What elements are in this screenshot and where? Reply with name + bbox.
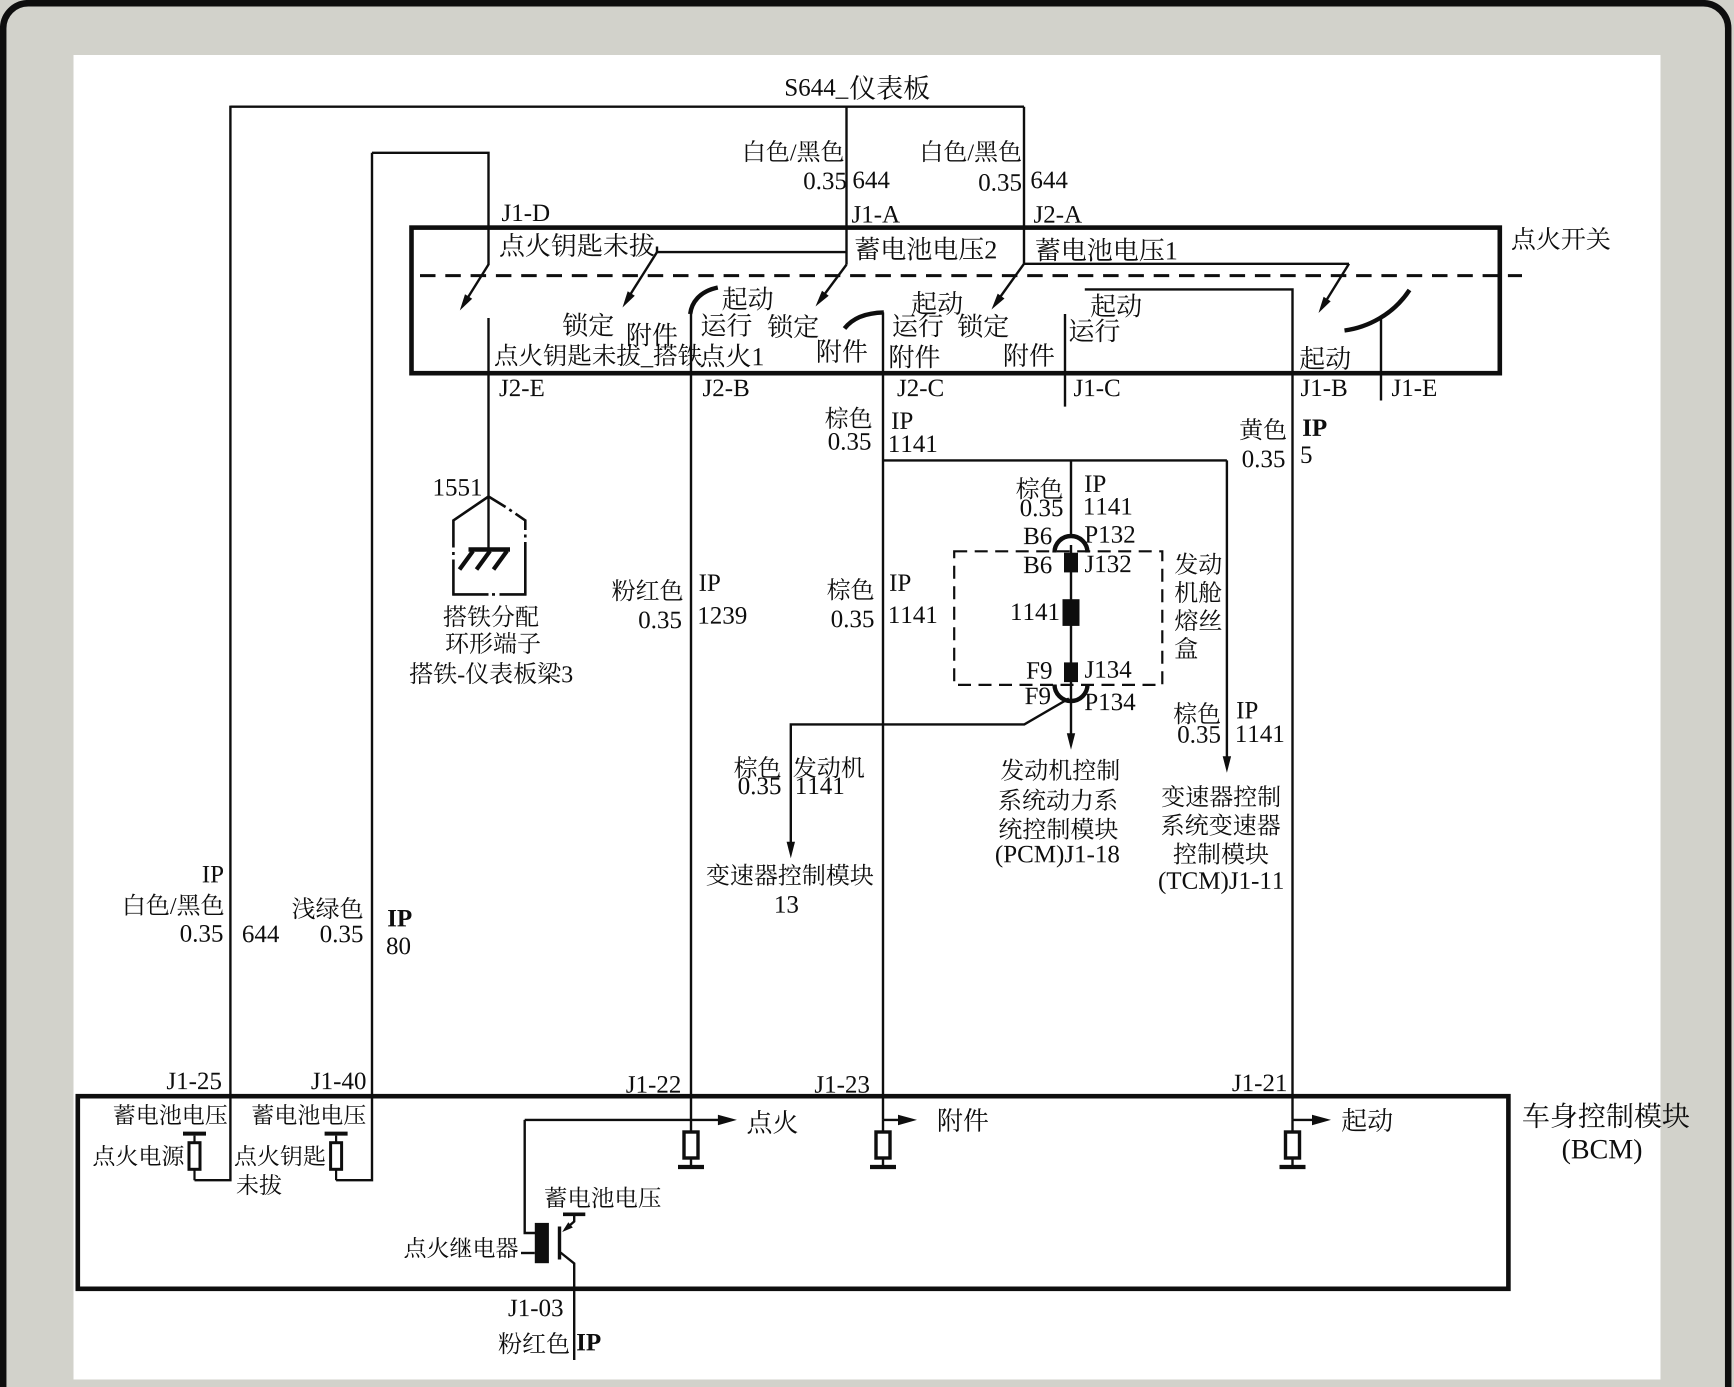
wire gauge 0.35 engine branch (739, 777, 781, 794)
arrow shaft key-in J1-D (464, 265, 489, 305)
ignition switch box outline (412, 228, 1500, 374)
wire color label white/black for J1-A (746, 140, 844, 162)
harness IP at J1-03 (577, 1334, 600, 1350)
signal 蓄电池电压 at relay (545, 1187, 661, 1209)
wire color 粉红色 at J2-B (612, 579, 682, 601)
body control module (BCM) box outline (78, 1096, 1509, 1289)
destination PCM line1 (1001, 758, 1119, 780)
pin J1-B (1301, 380, 1346, 397)
position label 锁定 (1) (563, 312, 613, 336)
destination PCM line3 (999, 818, 1117, 840)
arrow shaft battery1 (996, 264, 1025, 304)
pin J1-40 (311, 1072, 365, 1089)
wire gauge 0.35 for J2-A (979, 174, 1021, 191)
switch contact arc at J1-E (1345, 290, 1410, 331)
position label 附件 (1) (628, 323, 677, 347)
switch contact arc at J2-B (690, 288, 718, 315)
wire gauge 0.35 at J2-C (829, 433, 871, 450)
pin J2-A (1034, 206, 1082, 223)
connector J132 (1085, 556, 1130, 573)
wire fuse feed run (883, 459, 1227, 461)
destination TCM line2 (1162, 813, 1280, 835)
module name (BCM) (1563, 1139, 1641, 1164)
fuse circuit 1141 (1012, 604, 1058, 621)
ground electrode prongs (460, 551, 508, 570)
arrowhead accessory output (898, 1115, 917, 1126)
wire gauge 0.35 TCM drop (1178, 726, 1220, 743)
arrowhead battery2 (816, 291, 829, 307)
wire start arrow line (1293, 1119, 1325, 1121)
wire color 白色/黑色 left (126, 894, 224, 916)
harness IP at J2-B (700, 575, 720, 591)
wire color label white/black for J2-A (923, 140, 1021, 162)
wire J1-B run and drop to BCM J1-21 (1085, 289, 1293, 1120)
arrowhead start output (1312, 1115, 1331, 1126)
pin J1-E (1392, 380, 1436, 397)
wire relay feed in BCM (525, 1120, 536, 1233)
wire color 浅绿色 (292, 897, 362, 919)
circuit number 644 at J1-A (853, 172, 889, 189)
terminal B6 upper (1024, 528, 1052, 545)
input load resistor at J1-22 ignition (690, 1120, 692, 1165)
wire fuse column (1070, 545, 1072, 742)
wire J2-B to BCM J1-22 (690, 312, 692, 1120)
wire gauge 0.35 for J1-A (804, 172, 846, 189)
ground terminal id 1551 (435, 479, 481, 496)
wire color 棕色 mid J2-C (827, 578, 873, 600)
signal 未拔 (237, 1174, 282, 1195)
harness IP (bold) 80 (388, 910, 411, 926)
ignition switch name 点火开关 (1512, 227, 1610, 250)
wire J1-25 riser (left vertical to BCM) (195, 106, 231, 1181)
position label 运行 (J2-B) (702, 313, 752, 337)
destination PCM line2 (999, 789, 1116, 811)
wire gauge 0.35 at J1-B (1243, 450, 1285, 467)
wire battery voltage 1 run (1024, 263, 1349, 265)
arrow shaft battery2 (820, 265, 847, 301)
connector J134 (1085, 661, 1131, 678)
ignition switch rotary dashed line (420, 274, 1522, 277)
wire gauge 0.35 fuse drop (1021, 499, 1063, 516)
harness IP (bold) at J1-B (1303, 420, 1326, 436)
pin J2-E (500, 380, 544, 397)
arrowhead battery1 (992, 294, 1005, 310)
termination resistor at J1-40 (battery voltage / key-in) (325, 1132, 348, 1136)
circuit 1141 mid J2-C (890, 607, 936, 624)
wire color 棕色 fuse drop (1016, 477, 1062, 499)
position label 运行 (J1-C) (1070, 318, 1120, 342)
fuse box name line2 机舱 (1175, 581, 1221, 603)
wire accessory arrow line (883, 1119, 910, 1121)
signal 点火钥匙 (235, 1145, 325, 1166)
terminal F9 lower (1025, 688, 1050, 705)
connector P134 (1085, 694, 1135, 711)
fuse terminal contact B6 (1064, 553, 1078, 573)
wire J1-C stub (1064, 314, 1066, 407)
arrowhead to TCM13 (787, 842, 795, 859)
wire color 粉红色 at J1-03 (499, 1332, 569, 1354)
circuit 80 (387, 937, 410, 954)
position label 运行 (J2-C) (893, 313, 943, 337)
wire gauge 0.35 ltgreen (321, 925, 363, 942)
pin J1-22 (626, 1076, 680, 1093)
ground electrode bar (469, 547, 511, 552)
arrowhead to PCM (1067, 733, 1075, 750)
position label 起动 (J2-C) (912, 291, 962, 315)
wire J1-A drop from bus (845, 107, 847, 265)
signal 蓄电池电压 at J1-40 (252, 1104, 365, 1125)
wire color 棕色 TCM drop (1174, 702, 1220, 724)
connector arc J134/P134 (1055, 685, 1088, 702)
harness IP mid J2-C (890, 575, 910, 591)
destination TCM line1 (1162, 785, 1280, 807)
net 点火钥匙未拔 (key-in) (500, 233, 654, 257)
ground text 搭铁-仪表板梁3 (410, 662, 572, 684)
pin J1-25 (167, 1073, 221, 1090)
wire J2-C to BCM J1-23 (882, 312, 884, 1120)
wire engine branch (791, 699, 1069, 852)
destination TCM line3 (1174, 842, 1269, 864)
pin J1-A (852, 206, 900, 223)
fuse box name line1 发动 (1175, 552, 1221, 574)
wire S644 splice bus (230, 105, 1024, 107)
circuit number 644 at J2-A (1031, 172, 1067, 189)
arrowhead ignition output (718, 1115, 737, 1126)
wire TCM drop (1226, 460, 1228, 765)
wire color 黄色 at J1-B (1240, 418, 1286, 440)
circuit 1141 fuse drop (1085, 498, 1131, 515)
harness 发动机 (794, 756, 865, 778)
pin J1-21 (1232, 1075, 1286, 1092)
input load resistor at J1-23 accessory (882, 1120, 884, 1165)
wire color 棕色 engine branch (734, 756, 780, 778)
arrow shaft start J1-B (1323, 264, 1350, 307)
wire gauge 0.35 mid J2-C (832, 610, 874, 627)
pin J1-03 (509, 1299, 563, 1316)
arrowhead start J1-B (1319, 297, 1331, 313)
termination resistor at J1-25 (battery voltage / ignition power) (183, 1132, 206, 1136)
circuit 1239 at J2-B (700, 607, 747, 624)
ground symbol enclosure (pentagon with dash-dot breaks) (452, 496, 526, 596)
position label 起动 (J2-B) (722, 287, 772, 311)
circuit 1141 at J2-C (890, 436, 936, 453)
harness IP at J2-C (892, 413, 912, 429)
transistor collector lead (565, 1214, 574, 1229)
destination pin 13 (776, 896, 798, 913)
wire gauge 0.35 at J2-B (639, 611, 681, 628)
position label 起动 (J1-C) (1091, 294, 1141, 318)
net label S644 instrument panel (CJK part) (850, 75, 929, 100)
arrow label 附件 (939, 1108, 988, 1132)
switch contact arc at J2-C (845, 312, 884, 328)
connector arc P132/J132 (1055, 536, 1088, 553)
arrowhead to TCM (1223, 756, 1231, 773)
contact label 点火1 (701, 343, 763, 367)
contact label 点火钥匙未拔_搭铁 (495, 344, 702, 368)
destination TCM line4 (1159, 871, 1283, 894)
input load resistor at J1-21 start (1291, 1120, 1293, 1165)
wire gauge 0.35 left (181, 925, 223, 942)
arrowhead key-in to lock (623, 291, 635, 307)
wire ignition arrow line (525, 1119, 729, 1121)
transistor base bar (558, 1227, 561, 1260)
position label 锁定 (2) (768, 314, 818, 338)
terminal B6 lower (1024, 557, 1052, 574)
ground text 搭铁分配 (444, 605, 539, 627)
destination 变速器控制模块 (707, 863, 874, 885)
net 蓄电池电压2 (855, 237, 995, 261)
destination PCM line4 (996, 845, 1119, 868)
battery voltage T-bar at transistor (563, 1213, 585, 1217)
fuse box name line3 熔丝 (1175, 609, 1222, 631)
net label S644 instrument panel (latin part) (786, 79, 848, 99)
pin J2-B (703, 380, 748, 397)
relay name 点火继电器 (404, 1237, 517, 1258)
signal 蓄电池电压 at J1-25 (114, 1104, 227, 1125)
harness IP fuse drop (1085, 476, 1105, 492)
arrow label 起动 (1342, 1108, 1392, 1132)
net 蓄电池电压1 (1036, 238, 1176, 262)
terminal F9 upper (1027, 662, 1052, 679)
arrow shaft key-in to lock (627, 252, 658, 300)
position label 锁定 (3) (958, 313, 1008, 337)
transistor emitter lead (561, 1253, 575, 1361)
circuit 5 at J1-B (1301, 447, 1311, 464)
position label 起动 (J1-B) (1300, 346, 1350, 370)
fuse terminal contact F9 (1064, 662, 1078, 682)
position label 附件 (2) (818, 339, 867, 363)
fuse element 1141 (1063, 599, 1080, 626)
wire J1-40 riser (336, 153, 372, 1180)
ground text 环形端子 (446, 632, 540, 654)
pin J1-D (502, 205, 549, 222)
circuit 1141 engine branch (797, 778, 843, 795)
wire key-in net step (657, 247, 847, 253)
wire J1-40 to J1-D jog (372, 153, 489, 265)
module name 车身控制模块 (1523, 1102, 1689, 1128)
signal 点火电源 (93, 1145, 183, 1166)
harness IP left (203, 866, 223, 882)
fuse box name line4 盒 (1175, 637, 1197, 658)
arrow label 点火 (748, 1110, 798, 1134)
ignition relay coil bar (535, 1223, 549, 1263)
wire color 棕色 at J2-C (825, 407, 871, 429)
transistor arrowhead (562, 1222, 573, 1232)
position label 附件 (J1-C left) (1005, 343, 1054, 367)
wire J1-E stub (1380, 319, 1382, 401)
engine compartment fuse box dashed outline (954, 551, 1162, 685)
circuit 644 left (243, 926, 279, 943)
arrowhead key-in J1-D (460, 294, 472, 310)
wire J2-E stem to ground (487, 318, 489, 549)
relay label dash (521, 1252, 535, 1254)
wire J2-A drop from bus (1023, 107, 1025, 264)
connector P132 (1085, 526, 1134, 543)
circuit 1141 TCM drop (1237, 726, 1283, 743)
pin J1-C (1074, 380, 1119, 397)
pin J2-C (898, 380, 943, 397)
harness IP TCM drop (1237, 702, 1257, 718)
wire fuse drop (1070, 460, 1072, 536)
position label 附件 (J2-C) (890, 345, 939, 369)
pin J1-23 (815, 1076, 869, 1093)
